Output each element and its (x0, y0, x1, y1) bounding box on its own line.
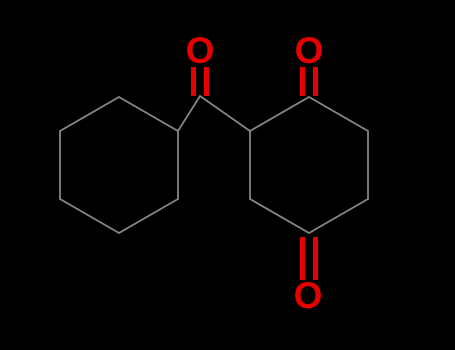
bond: left ring to carbonyl carbon (178, 96, 200, 131)
wire: ring edge J-K (309, 199, 368, 233)
C4=O double bond (red, bottom) (303, 237, 316, 280)
wire: ring edge H-I (309, 97, 368, 131)
wire: ring edge D-E (60, 199, 119, 233)
wire: ring edge B-C (177, 131, 179, 199)
wire: ring edge G-H (250, 97, 309, 131)
wire: ring edge K-L (250, 199, 309, 233)
svg-text:O: O (295, 30, 324, 71)
carbonyl C=O double bond (red, left) (194, 67, 207, 96)
wire: ring edge E-F (59, 131, 61, 199)
wire: ring edge C-D (119, 199, 178, 233)
bond: carbonyl carbon to right ring (200, 96, 250, 131)
left cyclohexane ring (60, 97, 178, 233)
wire: ring edge L-G (249, 131, 251, 199)
wire: ring edge F-A (60, 97, 119, 131)
right cyclohexane-1,4-dione ring (250, 97, 368, 233)
C1=O double bond (red, top right) (303, 67, 316, 96)
svg-text:O: O (294, 275, 323, 316)
wire: ring edge I-J (367, 131, 369, 199)
wire: ring edge A-B (119, 97, 178, 131)
svg-text:O: O (186, 30, 215, 71)
